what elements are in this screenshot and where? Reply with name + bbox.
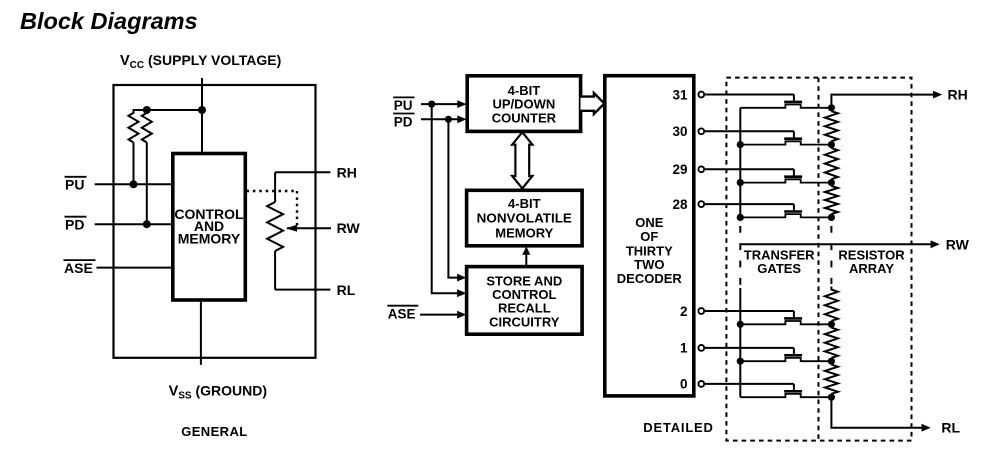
svg-text:30: 30 xyxy=(672,124,687,139)
wire decoder output 30 xyxy=(704,130,794,132)
junction node-28 xyxy=(828,214,835,221)
svg-text:RL: RL xyxy=(941,419,960,435)
transistor Q28 channel xyxy=(740,214,831,217)
svg-text:THIRTY: THIRTY xyxy=(626,243,673,258)
svg-text:TWO: TWO xyxy=(634,257,664,272)
pin circle output 31 xyxy=(698,92,704,98)
wire to pull-up resistors xyxy=(133,109,203,111)
junction PD branch xyxy=(445,116,452,123)
wire decoder output 0 xyxy=(704,383,794,385)
block arrow counter-to-decoder xyxy=(581,93,605,114)
wire ASE to store xyxy=(420,314,459,316)
junction bus-30 xyxy=(737,141,744,148)
wire pot bottom lead xyxy=(274,251,276,290)
wire decoder output 2 xyxy=(704,310,794,312)
wire decoder output 31 xyxy=(704,94,794,96)
wire RW bus continuation (dashed) xyxy=(739,226,741,288)
outer box (general) xyxy=(114,85,316,358)
svg-text:RH: RH xyxy=(337,165,357,181)
svg-text:PD: PD xyxy=(65,216,84,232)
transistor Q30 channel xyxy=(740,141,831,144)
svg-text:RH: RH xyxy=(948,86,968,102)
resistor RA4 (to 2) xyxy=(825,287,838,321)
svg-text:VCC (SUPPLY VOLTAGE): VCC (SUPPLY VOLTAGE) xyxy=(120,52,281,71)
svg-text:31: 31 xyxy=(672,87,688,102)
resistor RA3 (29-28) xyxy=(825,186,838,214)
svg-text:CIRCUITRY: CIRCUITRY xyxy=(489,314,560,329)
svg-text:ASE: ASE xyxy=(388,307,416,322)
wire decoder output 1 xyxy=(704,347,794,349)
wire RW bus (upper) xyxy=(739,108,741,219)
arrow store-to-memory xyxy=(525,252,527,267)
junction node-30 xyxy=(828,141,835,148)
svg-text:RW: RW xyxy=(946,236,970,252)
svg-text:NONVOLATILE: NONVOLATILE xyxy=(477,211,573,226)
transistor Q0 gate bar xyxy=(784,390,802,393)
wire decoder output 28 xyxy=(704,203,794,205)
transistor Q0 gate lead xyxy=(793,384,795,390)
svg-text:ARRAY: ARRAY xyxy=(849,261,894,276)
svg-text:PD: PD xyxy=(394,114,413,129)
wire PD input xyxy=(95,223,172,225)
wire RW output xyxy=(740,243,931,245)
transistor Q1 gate bar xyxy=(784,354,802,357)
transistor Q1 gate lead xyxy=(793,348,795,354)
wire PU to counter xyxy=(421,103,459,105)
dashed divider xyxy=(818,78,820,441)
transistor Q31 gate lead xyxy=(793,95,795,101)
transistor Q29 gate bar xyxy=(784,175,802,178)
transistor Q31 gate bar xyxy=(784,101,802,104)
wire decoder output 29 xyxy=(704,168,794,170)
wire ASE input xyxy=(97,267,173,269)
svg-text:ASE: ASE xyxy=(64,260,93,276)
svg-text:PU: PU xyxy=(394,98,413,113)
transistor Q31 channel xyxy=(740,105,831,108)
resistor RA1 (31-30) xyxy=(825,111,838,141)
svg-text:28: 28 xyxy=(672,197,688,212)
resistor R-pullup-2 xyxy=(142,110,152,143)
junction node-2 xyxy=(828,321,835,328)
transistor Q28 gate bar xyxy=(784,210,802,213)
junction node-0 xyxy=(828,394,835,401)
memory box U3 xyxy=(467,190,582,246)
transistor Q30 gate bar xyxy=(784,137,802,140)
decoder box U5 xyxy=(605,76,694,396)
svg-text:MEMORY: MEMORY xyxy=(495,225,553,240)
svg-text:OF: OF xyxy=(640,229,658,244)
svg-text:2: 2 xyxy=(680,304,688,319)
pin circle output 29 xyxy=(698,166,704,172)
wire RL (general) xyxy=(275,289,330,291)
svg-text:COUNTER: COUNTER xyxy=(492,110,557,125)
store box U4 xyxy=(467,267,582,335)
transistor Q30 gate lead xyxy=(793,131,795,137)
junction node-1 xyxy=(828,358,835,365)
junction PU node xyxy=(130,180,138,188)
svg-text:GENERAL: GENERAL xyxy=(181,424,247,439)
svg-text:PU: PU xyxy=(65,177,84,193)
wire RL output xyxy=(831,397,922,428)
transistor Q1 channel xyxy=(740,358,831,361)
svg-text:4-BIT: 4-BIT xyxy=(508,196,541,211)
counter box U2 xyxy=(467,76,580,132)
svg-text:0: 0 xyxy=(680,377,688,392)
pin circle output 2 xyxy=(698,308,704,314)
svg-text:ONE: ONE xyxy=(635,215,664,230)
transistor Q2 gate bar xyxy=(784,317,802,320)
wire pot top lead xyxy=(274,172,276,202)
junction bus-28 xyxy=(737,214,744,221)
wire VCC stub xyxy=(201,78,203,154)
wire R1 to PU xyxy=(133,143,135,185)
transistor Q2 channel xyxy=(740,321,831,324)
potentiometer RPOT xyxy=(267,202,283,251)
svg-text:GATES: GATES xyxy=(757,261,801,276)
wire RW wiper arrow xyxy=(287,227,331,229)
wire RH output xyxy=(831,95,933,108)
dashed box transfer gates / resistor array xyxy=(726,78,911,441)
wire R2 to PD xyxy=(146,143,148,225)
transistor Q2 gate lead xyxy=(793,311,795,317)
double arrow counter-memory xyxy=(512,132,532,188)
wire PU input xyxy=(95,183,172,185)
transistor Q29 channel xyxy=(740,179,831,182)
resistor RA2 (30-29) xyxy=(825,148,838,179)
wire PD branch to store xyxy=(448,119,458,277)
control-and-memory box U1 xyxy=(173,154,246,301)
pin circle output 30 xyxy=(698,128,704,134)
svg-text:DETAILED: DETAILED xyxy=(643,420,713,435)
transistor Q0 channel xyxy=(740,394,831,397)
resistor R-pullup-1 xyxy=(129,110,139,143)
svg-text:MEMORY: MEMORY xyxy=(178,230,241,246)
pin circle output 1 xyxy=(698,345,704,351)
svg-text:VSS (GROUND): VSS (GROUND) xyxy=(169,383,267,402)
junction bus-2 xyxy=(737,321,744,328)
junction PU branch xyxy=(428,101,435,108)
junction VCC node xyxy=(198,106,206,114)
wire PD to counter xyxy=(421,118,459,120)
pin circle output 28 xyxy=(698,201,704,207)
svg-text:DECODER: DECODER xyxy=(617,271,683,286)
junction resistor-top node xyxy=(143,106,151,114)
svg-text:1: 1 xyxy=(680,341,688,356)
pin circle output 0 xyxy=(698,381,704,387)
svg-text:RL: RL xyxy=(337,282,356,298)
transistor Q28 gate lead xyxy=(793,204,795,210)
transistor Q29 gate lead xyxy=(793,169,795,175)
junction bus-1 xyxy=(737,358,744,365)
svg-text:RW: RW xyxy=(337,220,361,236)
wire VSS stub xyxy=(200,300,202,365)
wire RH (general) xyxy=(275,171,330,173)
resistor RA6 (1-0) xyxy=(825,365,838,394)
resistor RA5 (2-1) xyxy=(825,328,838,358)
svg-text:29: 29 xyxy=(672,162,687,177)
dotted wiper control link xyxy=(247,190,298,192)
wire resistor chain continuation (dashed) xyxy=(830,226,832,284)
wire PU branch to store xyxy=(432,104,459,293)
junction node-31 xyxy=(828,104,835,111)
junction node-29 xyxy=(828,179,835,186)
junction PD node xyxy=(143,220,151,228)
wire RW bus (lower) xyxy=(739,288,741,397)
svg-text:Block Diagrams: Block Diagrams xyxy=(20,8,198,34)
junction bus-29 xyxy=(737,179,744,186)
